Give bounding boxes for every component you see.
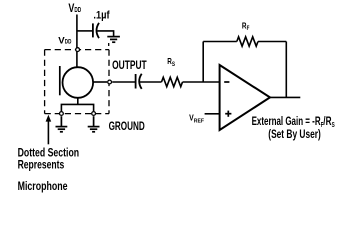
wire feedback top right [258, 41, 286, 43]
svg-text:S: S [172, 62, 175, 68]
op-amp U1 [220, 65, 270, 130]
node OUTPUT (right of box) [108, 80, 112, 84]
svg-text:.1µf: .1µf [93, 10, 110, 22]
ground left (under mic) [56, 116, 68, 132]
svg-text:OUTPUT: OUTPUT [112, 58, 147, 72]
node ground left [60, 112, 64, 116]
svg-text:/R: /R [323, 114, 331, 128]
ground (decoupling cap) [107, 37, 120, 43]
svg-text:DD: DD [65, 39, 72, 45]
capacitor C2 flat plate [135, 74, 137, 89]
svg-text:F: F [247, 26, 250, 32]
svg-text:S: S [332, 122, 335, 129]
svg-text:(Set By User): (Set By User) [268, 127, 321, 141]
wire VDD stem down to mic top [76, 15, 78, 69]
wire VREF to plus input [205, 113, 220, 115]
svg-text:DD: DD [74, 5, 81, 14]
capacitor C2 curved plate [139, 74, 142, 89]
dotted section box (microphone outline) [45, 50, 109, 114]
label RS [167, 56, 175, 68]
op-amp minus sign [224, 81, 229, 83]
wire capacitor to ground [97, 31, 113, 36]
svg-text:Microphone: Microphone [18, 179, 68, 193]
wire feedback left leg [202, 42, 204, 83]
label VREF [189, 114, 204, 125]
wire Rs to op-amp inverting input [183, 81, 220, 83]
wire output node to coupling cap [112, 81, 135, 83]
capacitor C1 curved plate [97, 23, 100, 38]
resistor RF [237, 37, 258, 46]
label External Gain = -RF/RS [252, 114, 335, 129]
label RF [242, 21, 250, 33]
wire feedback right leg [285, 42, 287, 98]
wire mic bottom stem [77, 98, 79, 105]
node VDD (top of box) [76, 48, 80, 52]
svg-text:External Gain = -R: External Gain = -R [252, 114, 321, 128]
op-amp plus sign [225, 111, 231, 117]
label VDD (top supply) [68, 1, 81, 15]
wire mic right to output node [93, 81, 107, 83]
svg-text:GROUND: GROUND [109, 119, 146, 133]
wire feedback top left [203, 41, 237, 43]
wire cap to Rs [140, 81, 162, 83]
ground right (under mic) [88, 116, 100, 132]
microphone element: circle [63, 67, 94, 98]
resistor RS [162, 77, 183, 86]
wire capacitor branch [77, 30, 93, 32]
node ground right [92, 112, 96, 116]
microphone element: diaphragm plate [59, 66, 61, 95]
wire op-amp output [270, 96, 300, 98]
capacitor C1 .1uf flat plate [92, 23, 94, 37]
arrow pointing to dotted section [47, 120, 49, 145]
svg-text:Represents: Represents [18, 158, 65, 172]
stray dash above box corner [108, 43, 110, 46]
svg-text:REF: REF [194, 119, 205, 125]
label VDD (at mic node) [58, 35, 72, 46]
wire ground bracket [61, 104, 93, 111]
